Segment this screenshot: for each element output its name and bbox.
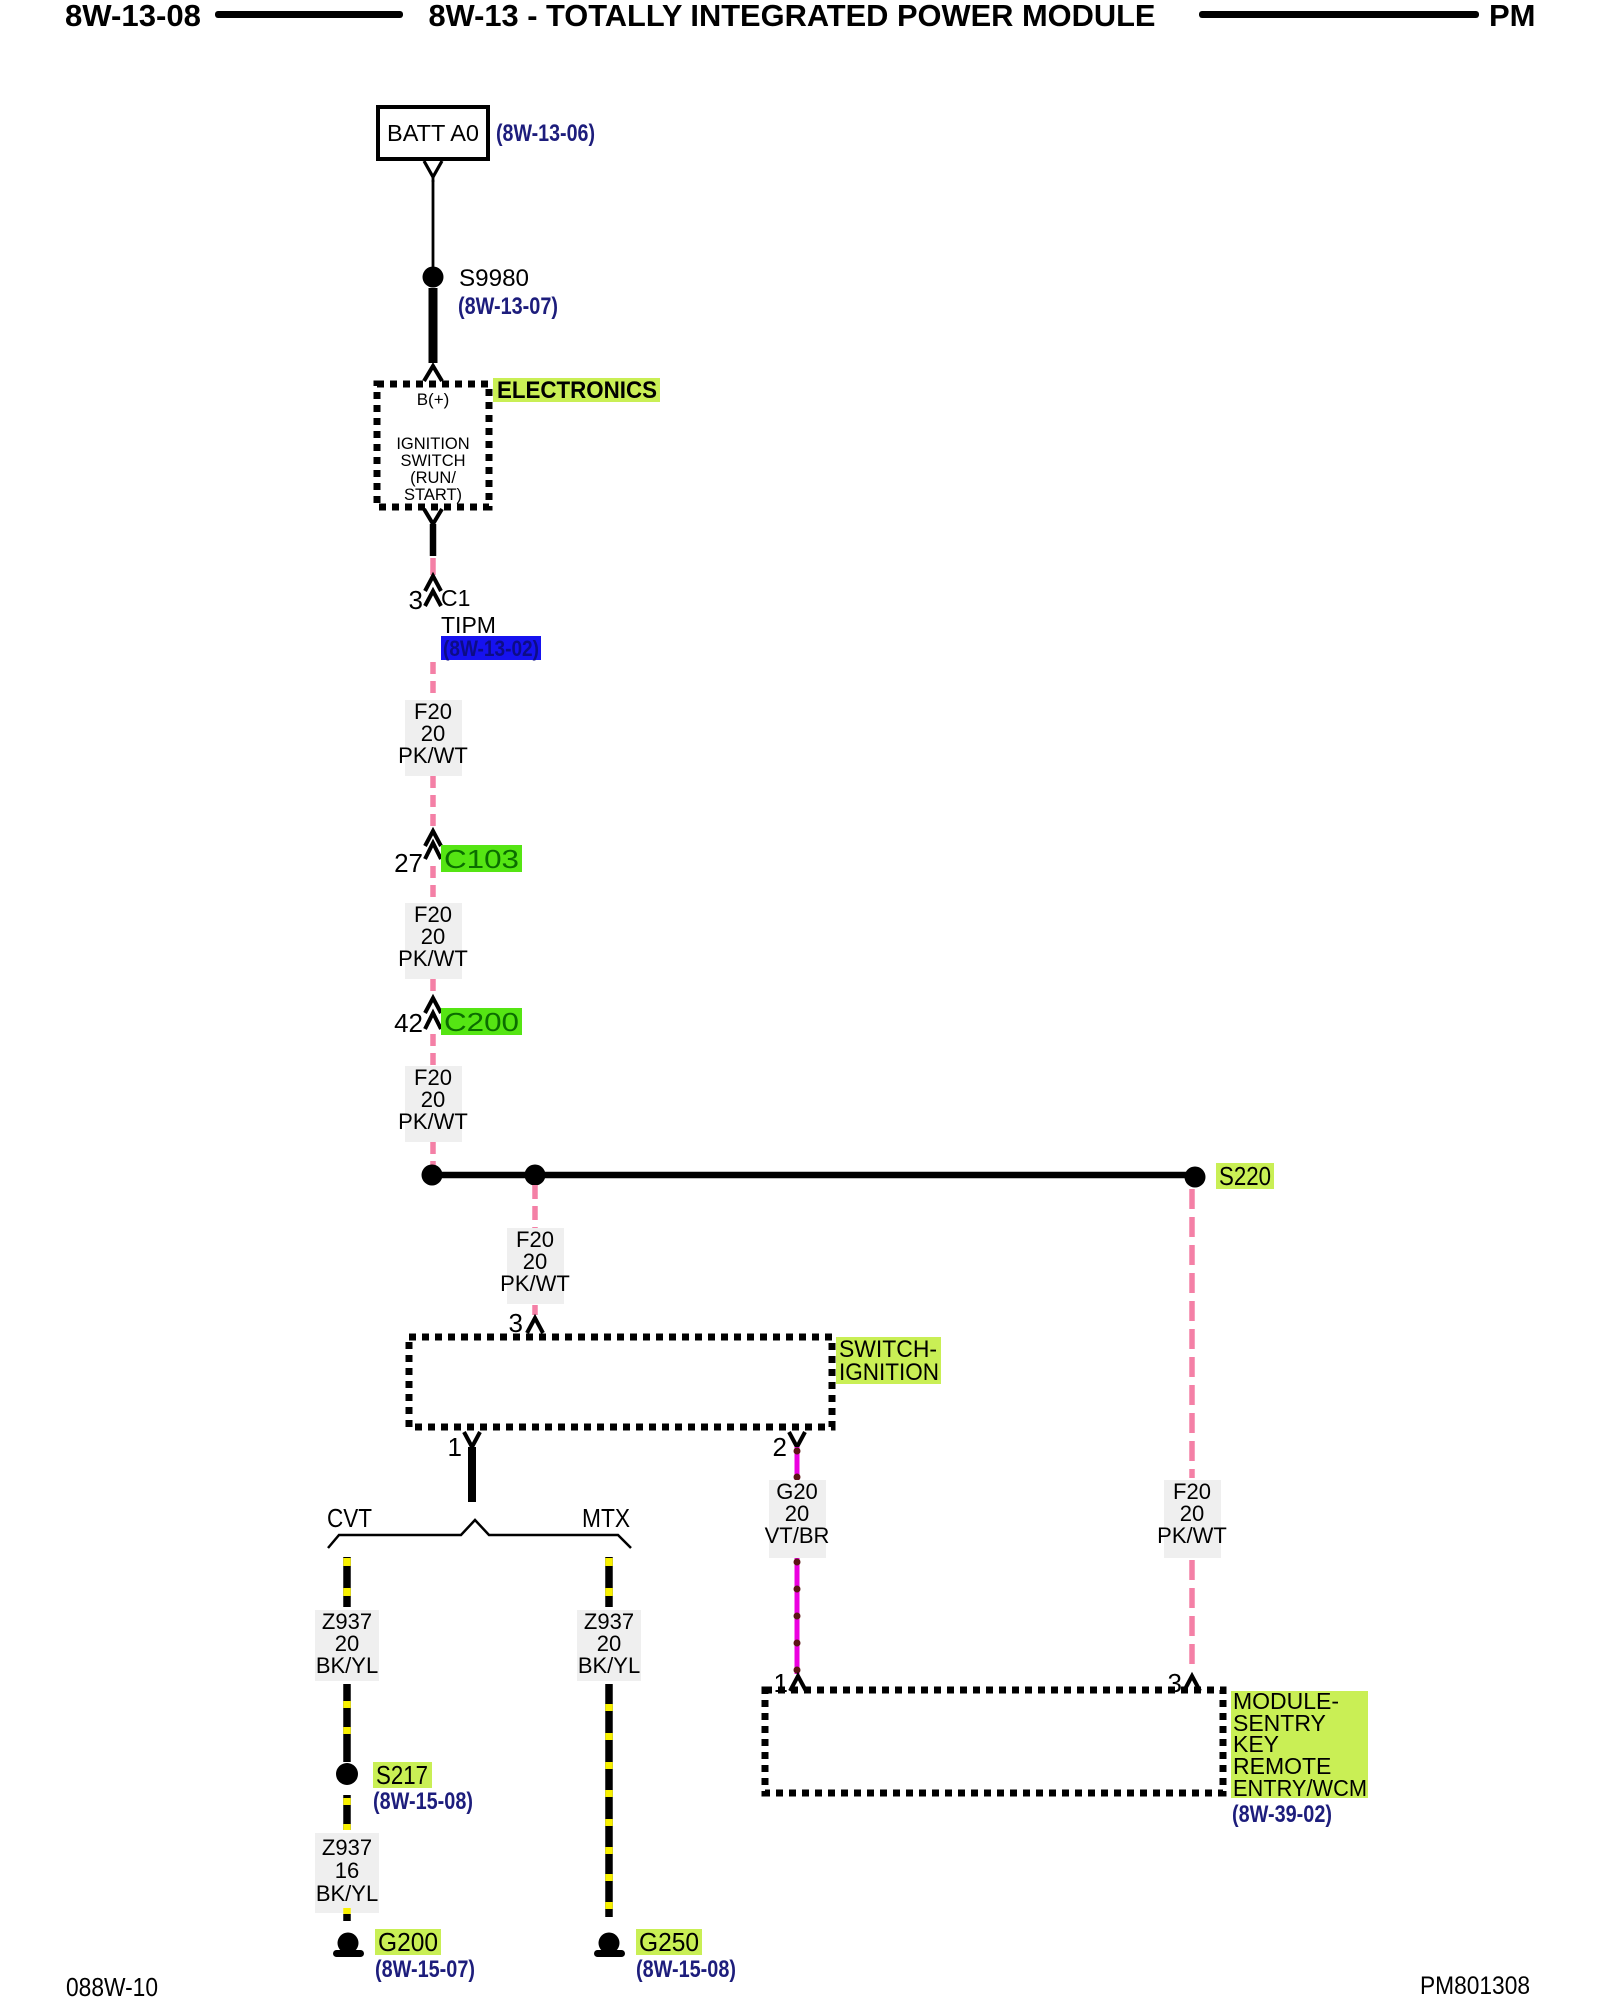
wire label Z937 16 BK/YL	[315, 1833, 379, 1913]
junction node left	[422, 1165, 443, 1186]
svg-text:3: 3	[409, 585, 423, 615]
splice S9980	[423, 267, 444, 288]
svg-text:SWITCH: SWITCH	[400, 452, 465, 470]
svg-text:Z937: Z937	[322, 1835, 372, 1860]
svg-text:PK/WT: PK/WT	[1157, 1523, 1227, 1548]
pin number 27 at C103	[394, 848, 423, 878]
wire pink segment above C1	[430, 558, 436, 575]
highlighted label S220	[1216, 1161, 1274, 1191]
wire label Z937 20 BK/YL right	[577, 1609, 641, 1681]
svg-text:CVT: CVT	[327, 1503, 372, 1533]
wire stub above G200	[343, 1908, 351, 1921]
chevron pin 1 switch-ignition	[464, 1432, 480, 1447]
highlighted label G250	[636, 1927, 702, 1957]
reference (8W-15-07)	[375, 1956, 475, 1983]
header right rule	[1199, 11, 1479, 18]
connector C1 double chevron	[425, 576, 441, 606]
footer code PM801308	[1420, 1972, 1530, 2000]
wire F20 segment C103 to label	[430, 866, 436, 903]
wire F20 segment C1 to label	[430, 662, 436, 700]
svg-text:MTX: MTX	[582, 1503, 630, 1533]
svg-text:BK/YL: BK/YL	[316, 1881, 378, 1906]
brace CVT MTX	[328, 1520, 631, 1548]
header left rule	[215, 11, 403, 18]
wire F20 segment C200 to label	[430, 1034, 436, 1066]
label MTX	[582, 1503, 630, 1533]
svg-text:S9980: S9980	[459, 265, 529, 292]
highlight MODULE-SENTRY KEY REMOTE ENTRY/WCM	[1231, 1688, 1368, 1801]
svg-text:C200: C200	[444, 1007, 519, 1037]
svg-text:G250: G250	[639, 1927, 699, 1957]
svg-text:BK/YL: BK/YL	[316, 1653, 378, 1678]
wire label G20 20 VT/BR	[765, 1479, 830, 1558]
wire F20 bus to label	[532, 1185, 538, 1228]
wire F20 segment label to bus	[430, 1142, 436, 1172]
wire Z937 MTX to G250	[605, 1684, 613, 1917]
wire label F20 20 PK/WT fourth	[500, 1227, 570, 1304]
highlighted label S217	[373, 1760, 432, 1790]
splice S220	[1185, 1167, 1206, 1188]
splice S217	[336, 1763, 358, 1785]
chevron ignition switch output	[424, 509, 442, 524]
connector C200 double chevron	[425, 998, 441, 1029]
svg-text:BATT A0: BATT A0	[387, 120, 479, 146]
wire G20 lower segment	[794, 1558, 801, 1674]
wire label F20 20 PK/WT second	[398, 902, 468, 979]
svg-text:ELECTRONICS: ELECTRONICS	[497, 377, 657, 404]
chevron pin 3 module	[1184, 1676, 1200, 1691]
highlighted label G200	[375, 1927, 441, 1957]
wire label F20 20 PK/WT right	[1157, 1479, 1227, 1558]
svg-text:PM: PM	[1489, 0, 1536, 33]
chevron pin 3 switch-ignition	[527, 1318, 543, 1333]
wire Z937 MTX upper segment	[605, 1557, 613, 1607]
svg-text:(8W-15-08): (8W-15-08)	[373, 1788, 473, 1815]
bus wire to S220	[432, 1172, 1195, 1179]
chevron pin 1 module	[790, 1676, 806, 1691]
reference (8W-13-06)	[496, 120, 595, 147]
wire S9980 to ignition switch B(+)	[429, 288, 438, 363]
ground G250	[594, 1933, 625, 1958]
pin number 2 at switch-ignition	[773, 1432, 787, 1462]
svg-text:ENTRY/WCM: ENTRY/WCM	[1233, 1775, 1367, 1801]
svg-text:START): START)	[404, 486, 462, 504]
wire G20 upper segment	[794, 1447, 801, 1481]
wire F20 segment label to C200	[430, 979, 436, 996]
svg-text:IGNITION: IGNITION	[396, 435, 469, 453]
header title	[429, 0, 1156, 33]
svg-text:S220: S220	[1219, 1161, 1271, 1191]
wire ignition switch to connector C1 black segment	[430, 524, 437, 556]
switch-ignition box	[409, 1337, 832, 1427]
module sentry key remote entry box	[765, 1690, 1223, 1793]
chevron pin 2 switch-ignition	[789, 1432, 805, 1447]
svg-text:088W-10: 088W-10	[66, 1972, 158, 2000]
svg-text:PK/WT: PK/WT	[398, 946, 468, 971]
svg-text:(8W-13-07): (8W-13-07)	[458, 293, 558, 320]
svg-text:G200: G200	[378, 1927, 438, 1957]
wire F20 S220 to module pin 3	[1189, 1189, 1195, 1672]
pin number 42 at C200	[394, 1008, 423, 1038]
wire Z937 16 below S217	[343, 1795, 351, 1830]
svg-text:C1: C1	[441, 585, 470, 611]
svg-text:IGNITION: IGNITION	[839, 1359, 939, 1386]
ignition switch box	[377, 384, 489, 507]
pin number 3 at ignition switch	[509, 1308, 523, 1338]
label TIPM	[441, 612, 496, 638]
svg-text:PK/WT: PK/WT	[398, 1109, 468, 1134]
svg-text:(8W-39-02): (8W-39-02)	[1232, 1801, 1332, 1828]
reference (8W-15-08)	[373, 1788, 473, 1815]
label CVT	[327, 1503, 372, 1533]
svg-text:(8W-13-06): (8W-13-06)	[496, 120, 595, 147]
wire Z937 CVT upper segment	[343, 1557, 351, 1607]
pin number 3 at module	[1168, 1668, 1182, 1698]
svg-text:(RUN/: (RUN/	[410, 469, 456, 487]
footer sheet number 088W-10	[66, 1972, 158, 2000]
svg-text:PM801308: PM801308	[1420, 1972, 1530, 2000]
svg-text:PK/WT: PK/WT	[398, 743, 468, 768]
header code PM	[1489, 0, 1536, 33]
reference (8W-15-08) lower right	[636, 1956, 736, 1983]
svg-text:(8W-15-07): (8W-15-07)	[375, 1956, 475, 1983]
svg-text:16: 16	[335, 1858, 359, 1883]
wire BATT A0 to S9980	[432, 180, 435, 267]
highlighted reference (8W-13-02)	[441, 636, 541, 661]
svg-text:42: 42	[394, 1008, 423, 1038]
reference (8W-13-07)	[458, 293, 558, 320]
svg-text:TIPM: TIPM	[441, 612, 496, 638]
wire Z937 CVT to S217	[343, 1684, 351, 1762]
wire label Z937 20 BK/YL left	[315, 1609, 379, 1681]
connector chevron below BATT A0 box	[424, 161, 442, 182]
battery feed box BATT A0	[378, 107, 488, 159]
svg-text:1: 1	[448, 1432, 462, 1462]
svg-text:S217: S217	[376, 1760, 428, 1790]
chevron pin B(+)	[424, 366, 442, 381]
highlight ELECTRONICS	[493, 377, 660, 404]
svg-text:PK/WT: PK/WT	[500, 1271, 570, 1296]
reference (8W-39-02)	[1232, 1801, 1332, 1828]
label C1	[441, 585, 470, 611]
header page number 8W-13-08	[65, 0, 201, 33]
highlighted label C200	[441, 1007, 522, 1037]
highlight SWITCH-IGNITION	[836, 1336, 941, 1386]
pin number 3 at C1	[409, 585, 423, 615]
highlighted label C103	[441, 844, 522, 874]
wire F20 segment label to C103	[430, 776, 436, 829]
wire F20 stub to pin 3	[532, 1305, 538, 1315]
svg-text:27: 27	[394, 848, 423, 878]
connector C103 double chevron	[425, 831, 441, 859]
svg-text:8W-13 - TOTALLY INTEGRATED POW: 8W-13 - TOTALLY INTEGRATED POWER MODULE	[429, 0, 1156, 33]
svg-text:2: 2	[773, 1432, 787, 1462]
svg-text:BK/YL: BK/YL	[578, 1653, 640, 1678]
label S9980	[459, 265, 529, 292]
wire Z937 black stub below pin 1	[468, 1447, 476, 1502]
svg-text:VT/BR: VT/BR	[765, 1523, 830, 1548]
pin number 1 at switch-ignition	[448, 1432, 462, 1462]
wire label F20 20 PK/WT first	[398, 699, 468, 776]
svg-text:(8W-13-02): (8W-13-02)	[443, 636, 539, 661]
pin number 1 at module	[774, 1668, 788, 1698]
svg-text:8W-13-08: 8W-13-08	[65, 0, 201, 33]
junction node middle	[525, 1165, 546, 1186]
svg-text:B(+): B(+)	[417, 390, 450, 409]
ignition switch caption	[396, 435, 469, 504]
pin label B(+)	[417, 390, 450, 409]
svg-text:(8W-15-08): (8W-15-08)	[636, 1956, 736, 1983]
ground G200	[333, 1933, 364, 1958]
wire label F20 20 PK/WT third	[398, 1065, 468, 1142]
svg-text:C103: C103	[444, 844, 519, 874]
